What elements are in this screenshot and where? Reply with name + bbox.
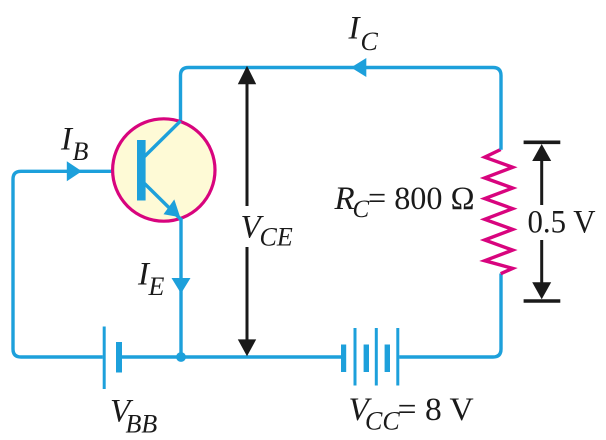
svg-text:C: C — [353, 196, 370, 223]
wire: emitter vertical down to node — [179, 218, 182, 357]
wire: bottom right segment and right vertical up to resistor — [399, 274, 501, 358]
transistor Q1: emitter arrowhead — [164, 199, 181, 217]
battery VBB negative plate (long thin) — [103, 327, 106, 390]
svg-text:B: B — [73, 137, 89, 166]
transistor Q1: emitter lead — [145, 184, 182, 220]
arrow: IC current arrow (cyan, pointing left) — [351, 58, 366, 77]
arrow: VCE measurement double arrow — [238, 66, 256, 356]
wire: bottom middle segment (VBB to VCC through emitter node) — [122, 355, 341, 358]
transistor Q1: body circle — [113, 119, 215, 221]
svg-text:BB: BB — [126, 410, 158, 439]
svg-text:0.5 V: 0.5 V — [528, 205, 596, 241]
transistor Q1: collector lead — [145, 121, 181, 157]
battery VBB positive plate (short thick) — [116, 342, 122, 373]
svg-text:= 800 Ω: = 800 Ω — [368, 181, 475, 217]
battery VCC plate 6 (long thin) — [396, 328, 399, 386]
svg-text:= 8 V: = 8 V — [398, 392, 474, 428]
svg-text:R: R — [334, 181, 355, 217]
wire: right vertical above resistor and top wire to collector — [181, 68, 502, 150]
svg-text:I: I — [348, 11, 362, 47]
arrow: IE current arrow (cyan, pointing down) — [172, 278, 191, 294]
wire: base loop (base lead, left vertical, bottom-left segment to VBB) — [13, 171, 138, 357]
svg-text:CE: CE — [260, 223, 293, 252]
label 0.5 V — [527, 207, 557, 238]
arrow: 0.5V measurement double arrow with end bars — [524, 142, 561, 301]
svg-text:C: C — [361, 27, 379, 56]
battery VCC plate 2 (long thin) — [354, 328, 357, 386]
battery VCC plate 4 (long thin) — [375, 328, 378, 386]
arrow: IB current arrow (cyan, pointing right) — [67, 161, 82, 181]
resistor RC zigzag — [485, 150, 513, 274]
battery VCC plate 5 (short thick) — [385, 345, 390, 373]
svg-text:E: E — [148, 272, 165, 301]
label VCE — [238, 206, 260, 247]
battery VCC plate 1 (short thick) — [341, 345, 346, 373]
transistor Q1: base bar — [137, 140, 146, 201]
battery VCC plate 3 (short thick) — [364, 345, 369, 373]
svg-text:CC: CC — [365, 406, 400, 435]
node: emitter junction dot — [176, 352, 186, 362]
